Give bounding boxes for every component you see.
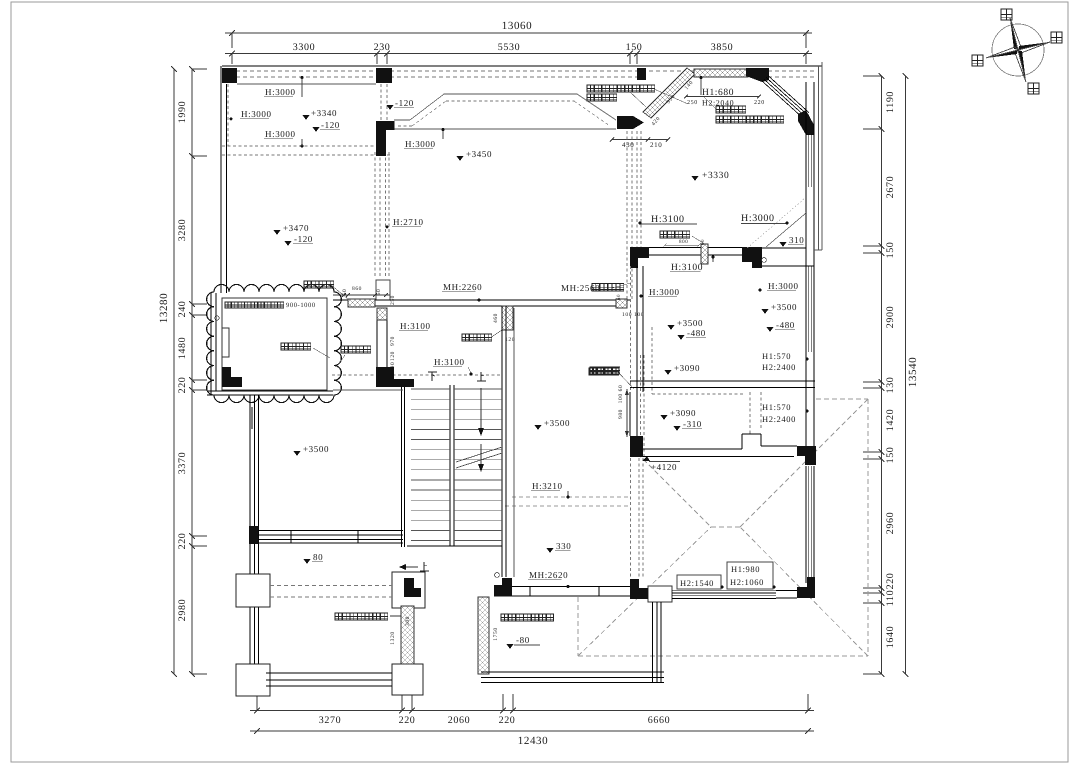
svg-text:-120: -120 bbox=[294, 234, 313, 244]
svg-text:1640: 1640 bbox=[885, 626, 896, 648]
svg-text:980: 980 bbox=[618, 409, 624, 419]
svg-text:430: 430 bbox=[622, 141, 634, 149]
svg-text:1990: 1990 bbox=[177, 101, 188, 123]
svg-text:100 60: 100 60 bbox=[618, 385, 624, 404]
svg-text:3270: 3270 bbox=[319, 715, 341, 726]
svg-text:2980: 2980 bbox=[177, 599, 188, 621]
svg-text:MH:2620: MH:2620 bbox=[529, 570, 568, 580]
svg-text:H:2710: H:2710 bbox=[393, 217, 424, 227]
svg-text:H:3000: H:3000 bbox=[265, 87, 296, 97]
svg-text:150: 150 bbox=[885, 242, 896, 259]
svg-text:H2:2400: H2:2400 bbox=[762, 362, 796, 372]
svg-text:120: 120 bbox=[505, 337, 515, 343]
svg-text:220: 220 bbox=[754, 100, 765, 106]
svg-text:H:3000: H:3000 bbox=[405, 139, 436, 149]
svg-text:220: 220 bbox=[499, 715, 516, 726]
svg-text:1420: 1420 bbox=[885, 409, 896, 431]
svg-text:150: 150 bbox=[626, 42, 643, 53]
svg-text:130: 130 bbox=[885, 377, 896, 394]
svg-text:460: 460 bbox=[493, 313, 499, 323]
svg-text:H:3000: H:3000 bbox=[265, 129, 296, 139]
svg-text:240: 240 bbox=[177, 301, 188, 318]
svg-text:H:3210: H:3210 bbox=[532, 481, 563, 491]
svg-text:80: 80 bbox=[313, 552, 323, 562]
svg-text:250: 250 bbox=[390, 295, 396, 305]
svg-text:860: 860 bbox=[352, 286, 362, 292]
svg-text:150: 150 bbox=[885, 447, 896, 464]
svg-text:MH:2260: MH:2260 bbox=[443, 282, 482, 292]
svg-text:-120: -120 bbox=[321, 120, 340, 130]
svg-text:H2:2400: H2:2400 bbox=[762, 414, 796, 424]
svg-text:13540: 13540 bbox=[907, 357, 919, 388]
svg-text:60: 60 bbox=[700, 239, 706, 245]
svg-text:220: 220 bbox=[177, 533, 188, 550]
svg-text:3370: 3370 bbox=[177, 452, 188, 474]
svg-text:H:3000: H:3000 bbox=[649, 287, 680, 297]
svg-text:13280: 13280 bbox=[158, 293, 170, 324]
svg-text:+3450: +3450 bbox=[466, 149, 492, 159]
svg-text:2960: 2960 bbox=[885, 512, 896, 534]
svg-text:H:3100: H:3100 bbox=[651, 214, 685, 225]
svg-text:120: 120 bbox=[390, 351, 396, 361]
svg-text:+3500: +3500 bbox=[303, 444, 329, 454]
svg-text:2670: 2670 bbox=[885, 176, 896, 198]
svg-text:310: 310 bbox=[789, 235, 804, 245]
svg-text:H2:1540: H2:1540 bbox=[680, 578, 714, 588]
svg-text:H:3000: H:3000 bbox=[741, 213, 775, 224]
svg-text:-480: -480 bbox=[776, 320, 795, 330]
svg-text:-480: -480 bbox=[687, 328, 706, 338]
svg-text:H1:570: H1:570 bbox=[762, 351, 791, 361]
svg-text:330: 330 bbox=[556, 541, 571, 551]
svg-text:60: 60 bbox=[616, 294, 622, 300]
svg-text:+3090: +3090 bbox=[670, 408, 696, 418]
svg-text:2900: 2900 bbox=[885, 306, 896, 328]
svg-text:H:3100: H:3100 bbox=[434, 357, 465, 367]
svg-text:1320: 1320 bbox=[390, 631, 396, 644]
svg-text:60: 60 bbox=[342, 289, 348, 296]
svg-text:60: 60 bbox=[376, 289, 382, 296]
svg-text:13060: 13060 bbox=[502, 20, 533, 32]
svg-text:250: 250 bbox=[687, 100, 698, 106]
svg-text:3850: 3850 bbox=[711, 42, 733, 53]
svg-text:1190: 1190 bbox=[885, 91, 896, 113]
svg-text:H:3000: H:3000 bbox=[241, 109, 272, 119]
svg-text:+3500: +3500 bbox=[771, 302, 797, 312]
svg-text:+4120: +4120 bbox=[651, 462, 677, 472]
svg-text:220: 220 bbox=[177, 377, 188, 394]
svg-text:210: 210 bbox=[650, 141, 662, 149]
svg-text:+3330: +3330 bbox=[702, 171, 729, 181]
svg-text:H1:570: H1:570 bbox=[762, 402, 791, 412]
svg-text:5530: 5530 bbox=[498, 42, 520, 53]
svg-text:H1:980: H1:980 bbox=[731, 564, 760, 574]
svg-text:3280: 3280 bbox=[177, 219, 188, 241]
svg-text:-310: -310 bbox=[683, 419, 702, 429]
svg-text:1480: 1480 bbox=[177, 337, 188, 359]
svg-text:970: 970 bbox=[390, 336, 396, 346]
svg-text:1750: 1750 bbox=[493, 627, 499, 640]
svg-text:+3500: +3500 bbox=[677, 318, 703, 328]
svg-text:-120: -120 bbox=[395, 98, 414, 108]
svg-text:+3470: +3470 bbox=[283, 223, 309, 233]
svg-text:H2:1060: H2:1060 bbox=[730, 577, 764, 587]
svg-text:6660: 6660 bbox=[648, 715, 670, 726]
svg-text:12430: 12430 bbox=[518, 735, 549, 747]
svg-text:220: 220 bbox=[885, 573, 896, 590]
svg-text:800: 800 bbox=[679, 239, 688, 245]
svg-text:H:3100: H:3100 bbox=[400, 321, 431, 331]
svg-text:300: 300 bbox=[405, 616, 411, 626]
svg-text:110: 110 bbox=[885, 590, 896, 606]
svg-text:3300: 3300 bbox=[293, 42, 315, 53]
svg-text:+3090: +3090 bbox=[674, 363, 700, 373]
svg-text:100 100: 100 100 bbox=[622, 312, 644, 318]
svg-text:+3500: +3500 bbox=[544, 418, 570, 428]
svg-text:H:3000: H:3000 bbox=[768, 281, 799, 291]
svg-text:MH:2560: MH:2560 bbox=[561, 283, 600, 293]
svg-text:-80: -80 bbox=[516, 635, 530, 645]
svg-text:900-1000: 900-1000 bbox=[286, 302, 316, 309]
svg-text:230: 230 bbox=[374, 42, 391, 53]
svg-text:+3340: +3340 bbox=[311, 108, 337, 118]
svg-text:2060: 2060 bbox=[448, 715, 470, 726]
svg-text:220: 220 bbox=[399, 715, 416, 726]
